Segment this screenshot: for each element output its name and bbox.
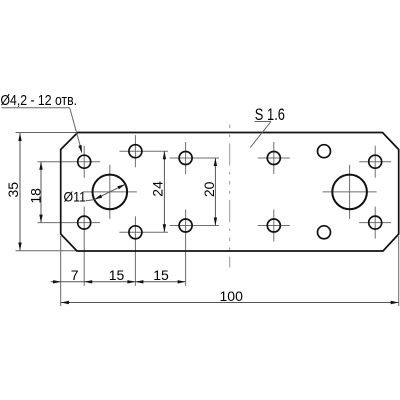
svg-text:Ø11: Ø11 [64, 189, 87, 205]
svg-text:15: 15 [109, 267, 125, 283]
svg-text:35: 35 [5, 182, 21, 198]
svg-text:100: 100 [220, 288, 244, 304]
svg-text:24: 24 [150, 181, 166, 197]
svg-text:20: 20 [201, 181, 217, 197]
svg-text:S 1.6: S 1.6 [255, 106, 285, 124]
svg-text:15: 15 [153, 267, 169, 283]
svg-text:18: 18 [27, 188, 43, 204]
svg-text:Ø4,2 - 12 отв.: Ø4,2 - 12 отв. [1, 92, 78, 109]
svg-text:7: 7 [71, 267, 79, 283]
